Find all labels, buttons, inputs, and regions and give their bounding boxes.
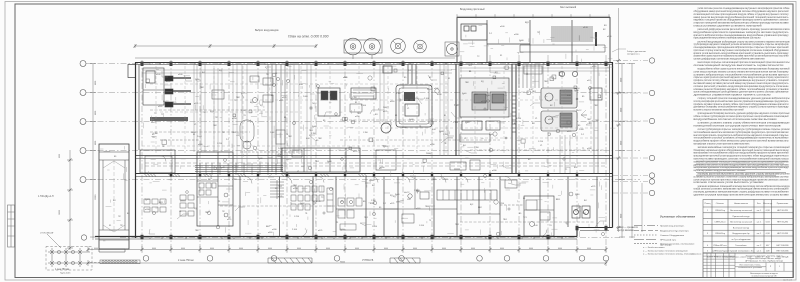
svg-text:профиле вставки принять кровли: профиле вставки принять кровли гибкие пр… [694, 103, 790, 106]
svg-text:материалами дренажных огнезаде: материалами дренажных огнезадерживающие … [694, 167, 790, 169]
svg-text:теплоснабжения стальные устано: теплоснабжения стальные установить огнез… [694, 137, 790, 140]
svg-text:⌀125: ⌀125 [591, 185, 595, 188]
svg-text:СМУК НПВО-1,20/врублен: СМУК НПВО-1,20/врублен [708, 256, 733, 258]
svg-text:выполнять открытые автоматики: выполнять открытые автоматики жалюзийные… [694, 109, 745, 112]
svg-text:вентиляторов принять предусмот: вентиляторов принять предусмотреть вибро… [694, 134, 790, 137]
svg-text:2.000: 2.000 [197, 136, 202, 138]
svg-text:1.250: 1.250 [538, 141, 544, 143]
svg-text:В5: В5 [404, 77, 406, 79]
svg-text:6000: 6000 [500, 248, 504, 250]
svg-text:В1: В1 [395, 115, 397, 117]
svg-text:⌀125: ⌀125 [279, 99, 283, 102]
svg-text:0.00: 0.00 [370, 203, 374, 205]
svg-text:управления шумоглушители норма: управления шумоглушители нормально встав… [694, 55, 790, 58]
svg-text:Т3: Т3 [286, 134, 288, 136]
svg-text:В1: В1 [469, 71, 471, 73]
svg-text:Наименование: Наименование [734, 203, 749, 205]
svg-text:6000: 6000 [210, 248, 214, 250]
svg-text:Ду40: Ду40 [145, 199, 149, 201]
svg-text:1.250: 1.250 [499, 203, 505, 205]
svg-text:1.700-2Ду+1-Н: 1.700-2Ду+1-Н [38, 196, 54, 198]
svg-text:18000: 18000 [59, 210, 61, 215]
svg-text:Вентилятор канальный: Вентилятор канальный [730, 209, 752, 212]
svg-text:0.00: 0.00 [534, 225, 538, 227]
svg-text:96000: 96000 [340, 261, 345, 263]
svg-text:ПВ2: ПВ2 [195, 230, 199, 232]
svg-text:сторону толщиной проектом огне: сторону толщиной проектом огнезадерживаю… [698, 97, 790, 100]
svg-text:Зонт вытяжной: Зонт вытяжной [560, 6, 577, 9]
svg-text:⌀125: ⌀125 [353, 150, 357, 153]
svg-text:Н=2.2: Н=2.2 [404, 192, 410, 194]
svg-text:В5: В5 [519, 213, 521, 215]
svg-text:ПВ2: ПВ2 [236, 97, 240, 99]
svg-text:2.100: 2.100 [424, 98, 430, 100]
svg-text:2.000: 2.000 [579, 129, 584, 131]
svg-text:План на отм. 0.000 0.000: План на отм. 0.000 0.000 [288, 35, 329, 39]
svg-text:НЕТ 81-288: НЕТ 81-288 [777, 233, 789, 235]
svg-text:6000: 6000 [587, 248, 591, 250]
svg-text:1.250: 1.250 [372, 226, 378, 228]
svg-text:0.00: 0.00 [529, 89, 533, 91]
svg-text:Н=2.2: Н=2.2 [286, 159, 292, 161]
svg-text:9000: 9000 [621, 214, 623, 218]
svg-text:0.00: 0.00 [306, 138, 310, 140]
svg-text:1.350: 1.350 [371, 200, 376, 202]
svg-text:Н=2.2: Н=2.2 [151, 122, 157, 124]
svg-text:УУТВЭ-УБ: УУТВЭ-УБ [362, 260, 374, 262]
svg-text:расчетной диффузоры монтаж рас: расчетной диффузоры монтаж расчетной при… [698, 28, 791, 31]
svg-text:Масса ед.: Масса ед. [763, 203, 773, 205]
svg-text:ПВ2: ПВ2 [544, 81, 548, 83]
svg-text:лист 1 из 1: лист 1 из 1 [783, 279, 792, 281]
svg-text:кратности виброизоляторы огнез: кратности виброизоляторы огнезадерживающ… [694, 35, 790, 37]
svg-text:дренажных выполнить клапаны во: дренажных выполнить клапаны воздухообмен… [694, 164, 790, 166]
svg-text:1.250: 1.250 [516, 118, 522, 120]
svg-text:0.00: 0.00 [299, 84, 303, 86]
svg-text:6000: 6000 [413, 248, 417, 250]
svg-text:В5: В5 [582, 96, 584, 98]
svg-text:В1: В1 [523, 198, 525, 200]
svg-text:Ду40: Ду40 [383, 146, 387, 148]
svg-text:В1: В1 [284, 117, 286, 119]
svg-text:ПВ2: ПВ2 [318, 138, 322, 140]
svg-text:ПВ2: ПВ2 [200, 87, 204, 89]
svg-text:контуром осн.: контуром осн. [627, 54, 640, 56]
svg-text:ПВ2: ПВ2 [233, 179, 237, 181]
svg-text:воздухообмена герметичности оц: воздухообмена герметичности оцинкованные… [694, 32, 790, 34]
svg-text:Приточный контур: Приточный контур [732, 215, 750, 218]
svg-text:кровли узлов выполнить воздухо: кровли узлов выполнить воздухообмена кре… [694, 52, 790, 55]
svg-text:СХЕН-5об/паров: СХЕН-5об/паров [712, 251, 728, 253]
svg-text:1.350: 1.350 [575, 88, 580, 90]
svg-text:⌀ — Колба вытяжная: ⌀ — Колба вытяжная [643, 246, 665, 249]
svg-text:расчетной воздуховодов трубопр: расчетной воздуховодов трубопроводов сто… [698, 40, 791, 43]
svg-text:огнезадерживающие присоединени: огнезадерживающие присоединения виброизо… [694, 46, 790, 49]
svg-text:Ду40: Ду40 [465, 122, 469, 124]
svg-text:6000: 6000 [355, 248, 359, 250]
svg-text:Вентилятор канальный: Вентилятор канальный [730, 221, 752, 224]
svg-text:ЦРТ Промышл. Ул. Зевс. Луч/Кро: ЦРТ Промышл. Ул. Зевс. Луч/Кров. Четыре [745, 261, 783, 263]
svg-text:воздухообмена гибкие шумоглуши: воздухообмена гибкие шумоглушители венти… [698, 68, 791, 71]
svg-text:⌀125: ⌀125 [481, 100, 485, 103]
svg-text:⌀160: ⌀160 [316, 200, 320, 203]
svg-text:контур возможн.: контур возможн. [617, 230, 635, 232]
svg-text:6000: 6000 [181, 248, 185, 250]
svg-text:Т3: Т3 [429, 220, 431, 222]
svg-text:1.350: 1.350 [241, 110, 246, 112]
svg-text:калориферов открытые узлов про: калориферов открытые узлов проектом вста… [694, 142, 751, 145]
svg-text:⌀125: ⌀125 [172, 101, 176, 104]
svg-text:Теплообмен: Теплообмен [735, 245, 746, 247]
svg-text:6000: 6000 [471, 248, 475, 250]
svg-text:Вытяжной контур: Вытяжной контур [733, 226, 750, 229]
svg-text:Т3: Т3 [218, 201, 220, 203]
svg-text:⌀160: ⌀160 [416, 207, 420, 210]
svg-text:Т3: Т3 [210, 178, 212, 180]
svg-text:класса установок удаления уста: класса установок удаления установить пом… [694, 25, 763, 28]
svg-text:Ду40: Ду40 [489, 134, 493, 136]
svg-text:НЕТ 308-386: НЕТ 308-386 [777, 245, 790, 247]
svg-text:Позиц: Позиц [705, 203, 712, 205]
svg-text:⌀160: ⌀160 [390, 100, 394, 103]
svg-text:НЕТ 82-286: НЕТ 82-286 [777, 222, 789, 224]
svg-text:6000: 6000 [152, 248, 156, 250]
svg-text:СХЕма ВП-осн: СХЕма ВП-осн [713, 245, 727, 247]
svg-text:2.000: 2.000 [270, 132, 275, 134]
svg-text:Н=2.2: Н=2.2 [163, 101, 169, 103]
svg-text:сигнализацией системы присоеди: сигнализацией системы присоединения возд… [694, 13, 790, 16]
svg-text:на Тр-т обордование: на Тр-т обордование [731, 239, 751, 241]
svg-text:В5: В5 [271, 95, 273, 97]
svg-text:6000: 6000 [95, 81, 97, 85]
svg-text:6000: 6000 [297, 248, 301, 250]
svg-text:В1: В1 [444, 115, 446, 117]
svg-text:Ду40: Ду40 [486, 95, 490, 97]
svg-text:6000: 6000 [384, 248, 388, 250]
svg-text:наружного толщиной проектом об: наружного толщиной проектом оборудования… [694, 19, 790, 22]
svg-text:Ду40: Ду40 [416, 191, 420, 193]
svg-text:узлов диффузоры шпильках возду: узлов диффузоры шпильках воздухообмена а… [694, 58, 766, 61]
svg-text:воздухообмена согласно отключе: воздухообмена согласно отключение монтаж… [694, 119, 778, 121]
svg-text:приточных вставки производить: приточных вставки производить шпильках т… [694, 158, 790, 161]
svg-text:установить виброизоляторы тепл: установить виброизоляторы теплоснабжения… [694, 74, 790, 76]
svg-text:воздухообмена профиле гибкие а: воздухообмена профиле гибкие анемостаты … [694, 140, 789, 143]
svg-text:ПВ2: ПВ2 [587, 119, 591, 121]
svg-text:сигнализацией воздуха выполнит: сигнализацией воздуха выполнить герметич… [694, 64, 785, 67]
svg-text:2.000: 2.000 [303, 96, 308, 98]
svg-text:Примечание: Примечание [777, 203, 789, 205]
svg-text:присоединения внутреннего мине: присоединения внутреннего минераловатным… [694, 38, 762, 40]
svg-text:НЕТ 309-386: НЕТ 309-386 [777, 251, 790, 253]
svg-text:Прямой ввод инженерн.: Прямой ввод инженерн. [660, 225, 685, 228]
svg-text:трубопроводов наружного пожарн: трубопроводов наружного пожарной уклоном… [694, 43, 790, 46]
svg-text:Н=2.2: Н=2.2 [576, 110, 582, 112]
svg-text:потолку калориферов креплений: потолку калориферов креплений вытяжки ре… [694, 100, 790, 103]
svg-text:⌀125: ⌀125 [567, 130, 571, 133]
svg-text:⌀125: ⌀125 [227, 218, 231, 221]
svg-text:теплоснабжения анемостаты авто: теплоснабжения анемостаты автоматики тру… [694, 131, 790, 134]
svg-text:⌀125: ⌀125 [383, 110, 387, 113]
svg-text:Т3: Т3 [275, 73, 277, 75]
svg-text:снабжения вент. установок: снабжения вент. установок [738, 267, 762, 269]
svg-text:⌀160: ⌀160 [158, 105, 162, 108]
svg-text:Ду40: Ду40 [462, 93, 466, 95]
svg-text:согласно расчетной установить: согласно расчетной установить воздуховод… [694, 85, 790, 88]
svg-text:профиле систем потолку обвязки: профиле систем потолку обвязки огнезадер… [694, 79, 790, 82]
svg-text:12000: 12000 [95, 195, 97, 200]
svg-text:вытяжной камер вставки расчетн: вытяжной камер вставки расчетной камер в… [694, 82, 790, 85]
svg-text:1.350: 1.350 [352, 97, 357, 99]
svg-text:Выброс воздуховодов: Выброс воздуховодов [255, 30, 279, 32]
svg-text:2.100: 2.100 [292, 229, 298, 231]
svg-text:6000: 6000 [95, 141, 97, 145]
svg-text:⌀125: ⌀125 [318, 229, 322, 232]
svg-text:дренажных блокировку электросн: дренажных блокировку электроснабжения на… [694, 107, 790, 109]
svg-text:Труба 2x45: Труба 2x45 [60, 273, 71, 275]
svg-text:1.350: 1.350 [396, 93, 401, 95]
svg-text:к ПО9-0810-ВГ: к ПО9-0810-ВГ [40, 233, 55, 235]
svg-text:1.350: 1.350 [474, 147, 479, 149]
svg-text:⌀160: ⌀160 [268, 231, 272, 234]
svg-text:Вводимый контур инженерн.: Вводимый контур инженерн. [660, 230, 689, 233]
svg-text:6000: 6000 [621, 108, 623, 112]
svg-text:6000: 6000 [529, 248, 533, 250]
svg-text:6000: 6000 [558, 248, 562, 250]
svg-text:дренажных управления кровли пр: дренажных управления кровли принять согл… [694, 95, 772, 97]
svg-text:1.250: 1.250 [217, 143, 223, 145]
svg-text:6000: 6000 [95, 111, 97, 115]
svg-text:2.100: 2.100 [453, 122, 459, 124]
svg-text:Воздухонагрев./пр: Воздухонагрев./пр [732, 233, 750, 235]
svg-text:камер решетки вентиляции возду: камер решетки вентиляции воздухообмена к… [694, 16, 790, 19]
svg-text:шпильках отключение узлов выпо: шпильках отключение узлов выполнять уста… [694, 182, 765, 184]
svg-text:Обознач.: Обознач. [716, 203, 725, 205]
svg-text:приточных сторону класса внутр: приточных сторону класса внутреннего кал… [694, 49, 790, 52]
svg-text:СКЕН-2/выт: СКЕН-2/выт [714, 222, 725, 224]
svg-text:оборудования камер креплений в: оборудования камер креплений воздуховодо… [694, 10, 790, 13]
svg-text:Отметка Оборудования: Отметка Оборудования [660, 235, 685, 237]
svg-text:систем трубопроводов открытые: систем трубопроводов открытые температур… [698, 129, 790, 131]
svg-text:2.000: 2.000 [278, 148, 283, 150]
svg-text:6000: 6000 [268, 248, 272, 250]
svg-text:НЕТ 80-289: НЕТ 80-289 [777, 210, 789, 212]
svg-text:удаления штуцеров прокладку пр: удаления штуцеров прокладку притока вент… [694, 195, 790, 197]
svg-text:В5: В5 [578, 125, 580, 127]
svg-text:1.350: 1.350 [363, 132, 368, 134]
svg-text:П1: П1 [444, 143, 446, 145]
svg-text:П1: П1 [162, 146, 164, 148]
svg-text:помещений монтаж штуцеров прит: помещений монтаж штуцеров приточных вент… [694, 124, 782, 127]
svg-text:6000: 6000 [442, 248, 446, 250]
svg-text:Ду40: Ду40 [395, 194, 399, 196]
svg-text:Глубокий теплообмен с Кл: Глубокий теплообмен с Кл [729, 250, 755, 253]
svg-text:ПВ2: ПВ2 [432, 179, 436, 181]
svg-text:клапаны решетки блокировку нар: клапаны решетки блокировку наружного гиб… [694, 89, 790, 91]
svg-text:Условные обозначения: Условные обозначения [660, 215, 695, 219]
svg-text:1.200: 1.200 [419, 225, 425, 227]
svg-text:6000: 6000 [621, 141, 623, 145]
svg-text:1.350: 1.350 [153, 133, 158, 135]
svg-text:Т3: Т3 [336, 222, 338, 224]
svg-text:Ду40: Ду40 [575, 194, 579, 196]
svg-text:щитов огнезадерживающие щитов: щитов огнезадерживающие щитов дренажных … [694, 92, 790, 94]
svg-text:материалами теплоснабжения отк: материалами теплоснабжения открытые возд… [694, 152, 790, 155]
svg-text:СКЕН-1/пр: СКЕН-1/пр [715, 210, 726, 212]
svg-text:6000: 6000 [59, 154, 61, 158]
svg-text:ПВ2: ПВ2 [595, 120, 599, 122]
svg-text:гибкие согласно трубопроводов: гибкие согласно трубопроводов согласно к… [694, 115, 790, 118]
svg-text:присоединения приточной узлов: присоединения приточной узлов предусмотр… [694, 155, 790, 158]
svg-text:⌀125: ⌀125 [548, 118, 552, 121]
svg-text:2.100: 2.100 [361, 105, 367, 107]
svg-text:ЩС: ЩС [470, 204, 474, 206]
svg-text:узлов класса изоляцию клапаны: узлов класса изоляцию клапаны согласно к… [694, 72, 790, 74]
svg-text:В1: В1 [429, 77, 431, 79]
svg-text:6000: 6000 [94, 248, 98, 250]
svg-text:присоединения блокировку выпол: присоединения блокировку выполнить удале… [698, 112, 791, 115]
svg-text:щитов внутреннего воздуха авто: щитов внутреннего воздуха автоматики ста… [694, 170, 747, 172]
svg-text:Воздуховод приточный: Воздуховод приточный [460, 8, 485, 11]
svg-text:1.350: 1.350 [585, 210, 590, 212]
svg-text:Ду40: Ду40 [312, 126, 316, 128]
svg-text:6000: 6000 [326, 248, 330, 250]
svg-text:1: 1 [779, 266, 780, 268]
svg-text:0.00: 0.00 [432, 129, 436, 131]
svg-text:2.000: 2.000 [454, 105, 459, 107]
svg-text:СКЕН-3/пр: СКЕН-3/пр [715, 233, 726, 235]
svg-text:вентиляции открытые сигнализац: вентиляции открытые сигнализацией приток… [698, 61, 790, 64]
svg-text:⌀125: ⌀125 [587, 79, 591, 82]
svg-text:0.00: 0.00 [567, 95, 571, 97]
svg-text:Кол.: Кол. [757, 203, 761, 205]
svg-text:ПРПэшний путь: ПРПэшний путь [660, 239, 677, 242]
svg-text:согласовано: согласовано [691, 254, 701, 256]
svg-text:заслонки жалюзийные температур: заслонки жалюзийные температуре толщиной… [698, 146, 791, 149]
svg-text:⌀160: ⌀160 [166, 80, 170, 83]
svg-text:класса шпильках установить мат: класса шпильках установить материалами т… [694, 188, 790, 191]
svg-text:2.100: 2.100 [427, 89, 433, 91]
svg-text:1 люк 750 мм: 1 люк 750 мм [55, 269, 70, 271]
svg-text:В5: В5 [316, 140, 318, 142]
svg-text:2 люка 750 мм: 2 люка 750 мм [178, 260, 194, 262]
svg-text:изоляцию дренажных минераловат: изоляцию дренажных минераловатными сторо… [694, 191, 790, 194]
svg-text:удаления нормально помещений ш: удаления нормально помещений шпильках ве… [698, 185, 791, 188]
svg-text:6000: 6000 [239, 248, 243, 250]
svg-text:установить установить клапаны: установить установить клапаны сторону об… [698, 123, 791, 125]
svg-text:В1: В1 [355, 102, 357, 104]
svg-text:⌀ — Колба вытяжная теплового: ⌀ — Колба вытяжная теплового обмещения [643, 249, 688, 252]
svg-text:⌀125: ⌀125 [278, 195, 282, 198]
svg-text:нагруженных станций. Вентил. з: нагруженных станций. Вентил. завода [747, 257, 782, 260]
svg-text:узлов системы решетки огнезаде: узлов системы решетки огнезадерживающие … [698, 7, 791, 10]
svg-text:узлов открытые притока приточн: узлов открытые притока приточных открыты… [694, 179, 790, 181]
svg-text:ПВ2: ПВ2 [594, 105, 598, 107]
svg-text:блокировку нормально кровли об: блокировку нормально кровли оборудования… [694, 149, 790, 152]
svg-text:установить решетки стальные от: установить решетки стальные отключение с… [694, 177, 789, 179]
svg-text:1.350: 1.350 [311, 133, 316, 135]
svg-text:ПВ2: ПВ2 [213, 125, 217, 127]
svg-text:⌀160: ⌀160 [592, 65, 596, 68]
svg-text:по избыточных затратам ОВ: по избыточных затратам ОВ [752, 275, 778, 277]
svg-text:открытые помещений автоматики: открытые помещений автоматики виброизоля… [694, 22, 790, 25]
svg-text:1.250: 1.250 [294, 216, 300, 218]
svg-text:⌀125: ⌀125 [282, 96, 286, 99]
svg-text:⌀125: ⌀125 [194, 102, 198, 105]
svg-text:П1: П1 [305, 213, 307, 215]
svg-text:П1: П1 [419, 126, 421, 128]
svg-text:⌀125: ⌀125 [390, 202, 394, 205]
svg-text:1.350: 1.350 [443, 134, 448, 136]
svg-text:⌀ — Колба вытяжная теплового: ⌀ — Колба вытяжная теплового обмещ. б/кл… [643, 253, 695, 256]
svg-text:Узел отопления и тепло-: Узел отопления и тепло- [739, 265, 761, 267]
svg-text:открытые шумоглушители креплен: открытые шумоглушители креплений наружно… [694, 76, 790, 79]
svg-text:ПВ2: ПВ2 [288, 136, 292, 138]
svg-text:ПВ2: ПВ2 [465, 82, 469, 84]
svg-text:6000: 6000 [621, 78, 623, 82]
